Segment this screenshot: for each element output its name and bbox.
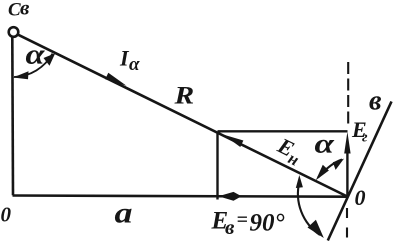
svg-text:в: в	[225, 215, 235, 239]
svg-text:в: в	[20, 0, 30, 20]
svg-text:г: г	[362, 130, 368, 146]
svg-text:α: α	[26, 38, 45, 70]
svg-text:в: в	[369, 86, 382, 117]
svg-text:90°: 90°	[250, 210, 285, 237]
svg-text:0: 0	[355, 185, 366, 210]
svg-text:α: α	[315, 128, 335, 158]
svg-text:R: R	[173, 82, 194, 109]
svg-text:a: a	[115, 196, 133, 229]
svg-text:0: 0	[1, 203, 12, 227]
svg-text:α: α	[129, 54, 140, 75]
svg-text:=: =	[237, 209, 248, 231]
